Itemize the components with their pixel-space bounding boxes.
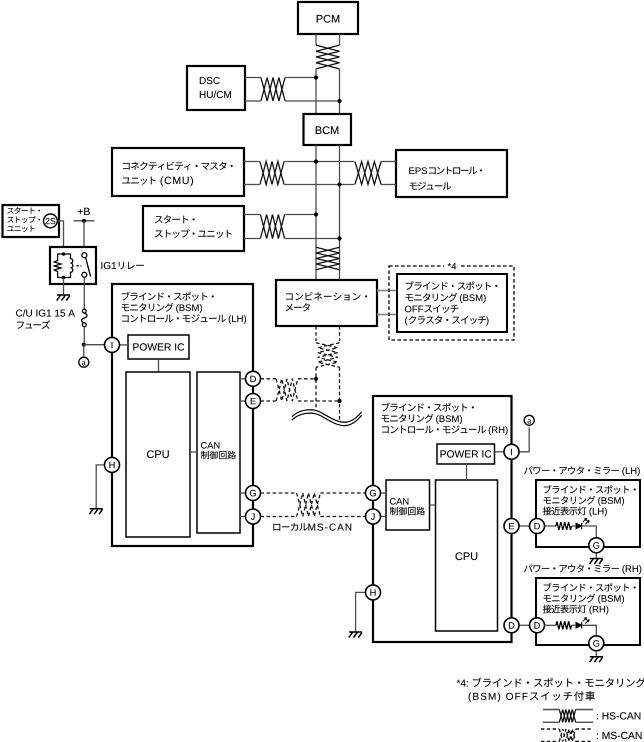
junction start-stop low / bus (337, 236, 341, 240)
label OFF switch line3 (405, 306, 423, 313)
wire DSC CAN low to bus (285, 100, 339, 102)
label start-stop unit line3 (7, 225, 35, 232)
wire HS-CAN high from PCM (315, 34, 317, 45)
module BSM control RH (373, 396, 512, 642)
junction relay coil bottom (62, 276, 66, 280)
wire CMU CAN low (244, 184, 260, 186)
wire DSC CAN low (245, 100, 261, 102)
wire DSC CAN high to bus (285, 77, 316, 79)
wire POWER IC to CPU RH (466, 464, 468, 480)
label indicator RH line1 (544, 583, 636, 592)
wire pin D to twist (260, 378, 276, 380)
wire CAN LH to pin J (240, 516, 246, 518)
legend MS-CAN wire 1 (541, 728, 559, 730)
label OFF switch line2 (406, 293, 458, 302)
wire 2S to relay coil (57, 221, 63, 254)
resistor relay coil suppression (54, 254, 63, 278)
twisted pair HS-CAN bus to meter (316, 247, 340, 270)
label power outer mirror LH (524, 466, 619, 474)
legend label MS-CAN (597, 732, 642, 739)
legend MS-CAN wire 3 (576, 728, 593, 730)
relay switch contact top (82, 253, 87, 258)
legend HS-CAN wire 4 (576, 721, 593, 723)
legend HS-CAN wire 3 (576, 709, 593, 711)
option box BSM OFF switch (389, 266, 514, 340)
wire +B bar (74, 220, 95, 222)
label indicator LH line2 (544, 496, 596, 504)
pin D RH (504, 618, 519, 633)
label power outer mirror RH (524, 564, 619, 572)
wire EPS CAN low (381, 184, 396, 186)
pin H LH (105, 457, 120, 472)
label BSM RH line2 (382, 414, 434, 423)
label BSM LH line1 (122, 292, 214, 301)
label meter line2 (286, 303, 310, 311)
wire pin E to twist (260, 400, 276, 402)
twisted pair HS-CAN CMU branch (260, 162, 284, 185)
relay coil (64, 254, 73, 278)
wire POWER IC to CPU LH (158, 359, 160, 372)
wire CMU CAN high (244, 161, 260, 163)
switch BSM OFF (397, 274, 507, 332)
twisted pair MS-CAN D-E branch (276, 379, 298, 401)
label indicator LH line3 (543, 507, 587, 516)
twisted pair MS-CAN meter branch (316, 343, 340, 367)
label BSM LH line3 (122, 314, 226, 322)
LED indicator LH (576, 518, 589, 529)
label CMU line1 (123, 162, 233, 171)
label meter line1 (286, 292, 367, 300)
relay switch contact bottom (82, 272, 87, 277)
ground indicator LH (590, 559, 603, 565)
junction IG1 feed (82, 343, 86, 347)
twisted pair HS-CAN PCM-BCM (316, 45, 340, 69)
junction relay coil top (62, 252, 66, 256)
pin J LH (246, 509, 261, 524)
pin D mirror RH (530, 618, 545, 633)
node +B (78, 208, 90, 215)
fuse C/U IG1 15A (82, 309, 87, 326)
relay switch blade (86, 257, 91, 276)
wire to node a (83, 345, 85, 358)
pin G LH (246, 486, 261, 501)
wire relay to fuse (83, 277, 85, 309)
wire pin I RH to node a (519, 428, 529, 452)
relay IG1 box (50, 247, 96, 284)
wire G LH to twist (260, 492, 296, 494)
twisted pair HS-CAN DSC branch (261, 78, 285, 102)
twisted pair HS-CAN start-stop branch (260, 215, 284, 239)
label fuse line1 (16, 309, 75, 316)
block CAN controller RH (386, 480, 430, 530)
junction CMU/EPS low / bus (337, 182, 341, 186)
wire HS-CAN low BCM to meter (339, 145, 341, 280)
ground relay coil (57, 295, 70, 301)
wire CAN LH to pin G (240, 492, 246, 494)
legend twisted pair MS-CAN (559, 729, 575, 742)
junction DSC low / bus (337, 99, 341, 103)
label indicator RH line3 (543, 605, 587, 614)
pin J RH (366, 509, 381, 524)
ground BSM RH (349, 632, 362, 638)
wire twist to MS-CAN low (298, 400, 340, 402)
connector 2S (44, 214, 58, 228)
label start-stop unit line2 (7, 216, 40, 223)
twisted pair local MS-CAN (297, 493, 321, 517)
pin I RH (504, 444, 519, 459)
wire POWER IC to pin I RH (495, 451, 505, 453)
label IG1 relay (101, 262, 116, 269)
wire pin I to POWER IC (119, 344, 128, 346)
label indicator LH line1 (544, 485, 636, 494)
wire MS-CAN high to bus (315, 367, 317, 411)
block CPU LH (126, 372, 190, 537)
wire J LH to twist (260, 516, 296, 518)
label EPS line2 (410, 182, 452, 190)
wire CAN LH to pin D (240, 378, 246, 380)
pin I LH (105, 337, 120, 352)
wire resistor to LED RH (572, 624, 577, 626)
label BSM RH line1 (382, 403, 474, 412)
pin E LH (246, 394, 261, 409)
wire CPU to CAN LH (190, 451, 197, 453)
relay actuating link (77, 265, 82, 267)
label CAN circuit LH (201, 451, 236, 459)
node a (79, 357, 89, 367)
pin G RH (366, 486, 381, 501)
wire HS-CAN low from PCM (339, 34, 341, 45)
junction +B (82, 219, 86, 223)
wire twist to MS-CAN high (298, 378, 316, 380)
pin E RH (504, 519, 519, 534)
label start-stop line2 (155, 229, 232, 238)
module EPS control (396, 150, 507, 197)
wire LED LH to pin G (582, 526, 597, 538)
wire MS-CAN low to bus (339, 367, 341, 421)
label start-stop line1 (155, 215, 195, 223)
wire CAN high CMU-EPS (284, 161, 354, 163)
block POWER IC LH (128, 335, 189, 359)
wire pin H LH to ground (96, 465, 104, 509)
wire start-stop CAN high to bus (285, 214, 316, 216)
wire DSC CAN high (245, 77, 261, 79)
pin D LH (246, 371, 261, 386)
junction MS-CAN high (314, 377, 318, 381)
wire HS-CAN high to BCM (315, 69, 317, 114)
junction DSC high / bus (314, 75, 318, 79)
junction start-stop high / bus (314, 212, 318, 216)
legend label HS-CAN (597, 712, 640, 719)
label CMU line2 (122, 177, 155, 185)
wire HS-CAN low to BCM (339, 69, 341, 114)
pin G mirror RH (589, 636, 604, 651)
wire pin G LH to ground (595, 553, 597, 559)
module BSM control LH (112, 284, 253, 546)
legend MS-CAN wire 2 (541, 741, 559, 742)
unit BSM indicator RH (536, 578, 640, 645)
harness continuation wave (292, 410, 362, 426)
label BSM RH line3 (382, 425, 486, 433)
label fuse line2 (17, 320, 50, 329)
module combination meter (276, 280, 377, 326)
pin H RH (366, 585, 381, 600)
label EPS line1 (409, 167, 427, 174)
wire CAN LH to pin E (240, 400, 246, 402)
legend HS-CAN wire 2 (543, 721, 559, 723)
wire CAN to CPU RH (430, 504, 436, 506)
LED indicator RH (576, 618, 589, 629)
junction MS-CAN low (337, 399, 341, 403)
wire relay coil to ground (63, 278, 65, 296)
ground indicator RH (590, 657, 603, 663)
unit start-stop (connector 2S) (3, 205, 60, 237)
block CAN controller LH (197, 372, 240, 533)
module DSC HU/CM (187, 66, 245, 110)
node a RH (524, 415, 534, 425)
wire pin G RH to CAN (380, 492, 386, 494)
wire mirror RH to resistor (545, 624, 557, 626)
wire +B to relay switch (83, 221, 85, 250)
label BSM LH line2 (122, 303, 174, 312)
resistor indicator LH (556, 522, 572, 530)
resistor indicator RH (556, 621, 572, 629)
wire pin J RH to CAN (380, 516, 386, 518)
label local MS-CAN (273, 523, 307, 531)
wire to pin I LH (84, 344, 105, 346)
wire EPS CAN high (381, 161, 396, 163)
wire start-stop CAN low to bus (285, 238, 340, 240)
wire pin H RH to ground (356, 592, 366, 632)
footnote line1 (457, 680, 468, 687)
block CPU RH (436, 480, 498, 631)
wire HS-CAN high BCM to meter (315, 145, 317, 280)
legend MS-CAN wire 4 (576, 741, 593, 742)
block POWER IC RH (437, 444, 495, 464)
wire resistor to LED LH (572, 525, 577, 527)
legend twisted pair HS-CAN (559, 710, 575, 723)
label OFF switch line1 (406, 281, 498, 290)
junction CMU/EPS high / bus (314, 159, 318, 163)
wire meter to BSM OFF switch 2 (377, 314, 397, 316)
module CMU (112, 148, 244, 196)
wire pin E RH to mirror LH (519, 525, 530, 527)
wire mirror LH to resistor (545, 525, 557, 527)
label OFF switch line4 (405, 317, 408, 326)
wire twist to J RH (320, 516, 365, 518)
wire start-stop CAN low (244, 238, 260, 240)
wire CAN low CMU-EPS (284, 184, 354, 186)
legend HS-CAN wire 1 (543, 709, 559, 711)
pin G mirror LH (589, 538, 604, 553)
wire pin G RH to ground (595, 651, 597, 657)
footnote line2 (469, 693, 528, 702)
wire meter to BSM OFF switch 1 (377, 290, 397, 292)
label CAN circuit RH (390, 507, 425, 515)
wire MS-CAN high from meter (315, 326, 317, 341)
wire LED RH to pin G (582, 625, 597, 636)
unit BSM indicator LH (536, 480, 640, 547)
wire pin D RH to mirror RH (519, 624, 530, 626)
wire MS-CAN low from meter (339, 326, 341, 341)
wire fuse to node (83, 327, 85, 345)
module BCM (304, 114, 352, 145)
wire twist to G RH (320, 492, 365, 494)
pin D mirror LH (530, 519, 545, 534)
wire start-stop CAN high (244, 214, 260, 216)
label indicator RH line2 (544, 594, 596, 602)
label start-stop unit line1 (7, 207, 40, 214)
ground BSM LH (89, 509, 102, 515)
twisted pair HS-CAN EPS branch (355, 162, 381, 185)
module PCM (298, 2, 358, 34)
module start-stop unit (143, 206, 244, 251)
